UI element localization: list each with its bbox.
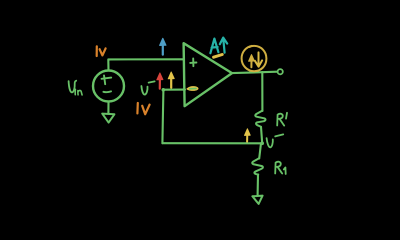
- label R2: [275, 162, 282, 174]
- wire R2 to ground: [257, 175, 259, 196]
- op-amp - input marker (yellow highlight): [186, 86, 198, 91]
- feedback wire vertical: [162, 90, 163, 143]
- wire - input: [164, 89, 186, 91]
- red arrow at v-: [159, 77, 161, 89]
- wire output node down to R1: [261, 72, 263, 111]
- op-amp U1: [184, 43, 232, 106]
- wire R1 to junction: [261, 127, 262, 143]
- up arrow in circle: [250, 58, 252, 67]
- label A (gain): [210, 39, 218, 54]
- op-amp + input sign: [190, 59, 196, 67]
- label 1v below v-: [136, 103, 139, 113]
- label 1v top: [96, 46, 98, 56]
- label v_in: [69, 81, 77, 93]
- label v- near op-amp: [141, 86, 147, 95]
- minus sign of source: [103, 90, 111, 93]
- voltage source Vin: [93, 71, 124, 102]
- wire source-top to op-amp + input: [108, 59, 184, 70]
- resistor R1: [255, 111, 265, 127]
- op-amp - input sign (green): [190, 88, 196, 90]
- ground bottom: [252, 196, 262, 204]
- label R1: [277, 114, 284, 126]
- blue arrow on + wire: [162, 42, 164, 55]
- yellow arrow at junction: [246, 133, 248, 142]
- wire junction down to R2: [259, 143, 261, 158]
- output wire: [232, 72, 277, 73]
- plus sign of source: [102, 75, 112, 84]
- down arrow in circle: [255, 52, 262, 66]
- node corner at v- input: [162, 88, 166, 92]
- junction node v-: [260, 142, 264, 146]
- resistor R2: [252, 158, 263, 174]
- feedback wire horizontal: [162, 142, 262, 144]
- output terminal: [278, 69, 283, 74]
- yellow dash under A: [214, 55, 223, 58]
- ground under source: [102, 114, 114, 123]
- wire source-bottom to ground: [107, 102, 109, 114]
- yellow arrow at v-: [170, 76, 172, 88]
- teal arrow beside A: [220, 38, 227, 53]
- label v- at junction: [267, 138, 273, 147]
- current source circle (yellow): [242, 46, 267, 71]
